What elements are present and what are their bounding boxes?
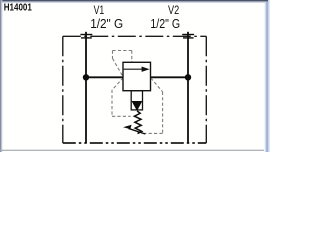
pilot line right bottom horizontal (144, 132, 163, 134)
wire: port V1 vertical line (85, 32, 87, 143)
frame bottom border (0, 150, 264, 151)
pilot line right vertical (162, 92, 164, 134)
relief valve body (square) (123, 62, 151, 90)
svg-text:1/2" G: 1/2" G (90, 17, 123, 31)
wire: main line V1 to valve inlet (86, 76, 123, 78)
pilot line diagonal right (151, 78, 163, 92)
spring (zigzag) (134, 111, 141, 134)
frame top border (0, 0, 268, 3)
pilot line left bottom horizontal (112, 115, 131, 117)
wire: port V2 vertical line (187, 32, 189, 143)
port V1 threaded connection symbol (double bars) (80, 35, 92, 38)
svg-text:1/2" G: 1/2" G (150, 17, 180, 31)
frame right border (264, 0, 270, 152)
svg-text:V1: V1 (94, 4, 105, 17)
frame left border (0, 0, 2, 152)
port V2 threaded connection symbol (double bars) (182, 35, 194, 38)
pilot line diagonal lower-left (112, 78, 123, 90)
poppet (filled triangle) (132, 101, 143, 111)
pilot line left vertical (111, 90, 113, 117)
spring adjustment arrow (123, 125, 145, 134)
junction node at V2 (185, 74, 191, 80)
poppet seat housing (narrow rectangle) (131, 91, 142, 110)
pilot line diagonal upper-left (113, 59, 124, 78)
svg-text:V2: V2 (168, 4, 179, 17)
junction node at V1 (83, 74, 89, 80)
wire: main line valve outlet to V2 (151, 76, 189, 78)
enclosure boundary (dash-dot body outline) (63, 36, 207, 143)
svg-text:H14001: H14001 (4, 3, 32, 14)
pilot line dashed box (vent) (113, 51, 132, 63)
flow arrow inside valve body (124, 67, 150, 72)
